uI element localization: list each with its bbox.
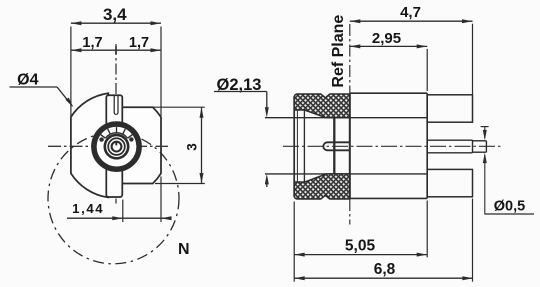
centerline right view [283,145,503,147]
mid body outline [350,92,427,94]
horizontal centerline left view [48,145,168,147]
ref plane centerline [349,24,351,94]
svg-text:1,7: 1,7 [129,35,149,51]
slot in tab top [114,96,118,114]
svg-text:Ø4: Ø4 [17,72,38,89]
svg-text:N: N [178,241,190,258]
dimension 4,7 [350,20,473,22]
svg-text:Ø0,5: Ø0,5 [494,199,525,215]
svg-text:2,95: 2,95 [372,30,401,47]
svg-text:1,44: 1,44 [72,201,104,216]
connector body right flange (3.4 x 3 flats) [121,107,161,183]
connector face castellation fan [105,133,127,139]
outer conductor section bottom (hatched) [294,174,350,199]
front lip inner edge [296,110,298,182]
extension lines for 3,4 [70,27,72,117]
dimension 5,05 [294,254,427,256]
extension lines right top [426,49,428,91]
dimension 1,7 left and right [71,49,161,51]
top mounting leg [427,95,472,122]
socket contact (capsule) [323,142,350,150]
dimension 2,95 [350,45,427,47]
extension lines right bottom [293,202,295,282]
dimension 1,44 bottom [67,217,172,219]
dielectric front face [303,110,305,182]
center pin Ø0,5 [427,139,472,141]
svg-text:3: 3 [184,143,199,151]
index dot right [129,137,133,141]
front face edge [293,96,295,197]
svg-text:Ref Plane: Ref Plane [330,15,347,88]
svg-text:4,7: 4,7 [400,4,421,21]
bottom mounting leg [427,169,472,196]
outer conductor section top (hatched) [294,94,350,118]
dimension 6,8 [294,277,473,279]
contact outer circle [108,138,125,155]
connector body left lobe (Ø4 arc profile) [71,93,108,197]
connector face outer ring [94,124,139,169]
svg-text:6,8: 6,8 [374,261,396,278]
dimension 3 right side [153,106,205,108]
svg-text:5,05: 5,05 [345,237,376,254]
vertical centerline left view [115,44,117,96]
socket entry edge [333,118,335,174]
center socket circle [112,142,122,152]
svg-text:3,4: 3,4 [103,5,127,24]
dimension 3,4 top [71,22,161,24]
index dot left [99,137,103,141]
svg-text:1,7: 1,7 [82,35,102,51]
bore lines Ø2,13 extensions [265,117,427,119]
vertical mounting tab through body [106,95,122,197]
circle N (mating clearance, dash-dot) [48,133,179,264]
ref plane body edge [349,94,351,199]
dielectric circle [105,135,128,158]
socket slot tick [115,141,117,145]
